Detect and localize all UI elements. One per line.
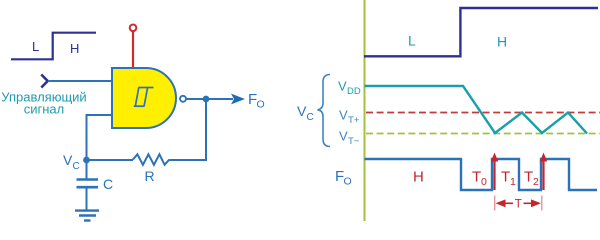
- wire input to gate pin 1: [48, 80, 112, 82]
- svg-text:C: C: [103, 176, 113, 192]
- curly brace for VC levels: [318, 75, 331, 147]
- timing axis (vertical): [364, 0, 366, 221]
- wire resistor to output node: [169, 99, 206, 160]
- wire gate pin 2 feedback left: [87, 115, 113, 160]
- resistor R: [133, 154, 170, 165]
- ground: [75, 209, 99, 211]
- period measurement tick 1: [494, 196, 496, 211]
- svg-text:T: T: [501, 169, 510, 186]
- svg-text:O: O: [257, 99, 265, 111]
- wire VC to resistor: [87, 159, 134, 161]
- svg-text:H: H: [70, 41, 79, 56]
- svg-text:сигнал: сигнал: [24, 102, 65, 117]
- output arrowhead: [231, 94, 245, 105]
- svg-text:DD: DD: [347, 86, 361, 97]
- svg-text:V: V: [338, 79, 347, 94]
- svg-text:T+: T+: [348, 115, 360, 126]
- svg-text:T: T: [524, 169, 533, 186]
- svg-text:T: T: [515, 198, 522, 210]
- svg-text:C: C: [73, 161, 80, 172]
- period measurement tick 2: [541, 196, 543, 211]
- svg-text:O: O: [344, 176, 352, 188]
- svg-text:R: R: [145, 168, 155, 184]
- FO waveform trace (blue): [365, 159, 598, 190]
- capacitor C: [86, 160, 88, 179]
- VC waveform trace (teal): [365, 86, 588, 134]
- gate output bubble: [180, 96, 186, 102]
- wire gate output to FO: [186, 98, 233, 100]
- output junction dot: [203, 96, 210, 103]
- wire capacitor to ground: [86, 187, 88, 210]
- svg-text:L: L: [408, 33, 416, 49]
- input arrow chevron: [41, 75, 47, 88]
- svg-text:T−: T−: [348, 136, 360, 147]
- control-signal step waveform (L to H): [11, 33, 96, 60]
- svg-text:V: V: [297, 103, 307, 119]
- red rising-edge arrow 1: [493, 158, 495, 190]
- svg-text:C: C: [307, 112, 314, 123]
- hysteresis symbol inside gate: [134, 88, 154, 107]
- control waveform trace (L to H step): [364, 8, 598, 56]
- period arrow right: [524, 202, 532, 204]
- svg-text:0: 0: [481, 176, 487, 188]
- svg-text:T: T: [472, 169, 481, 186]
- power supply wire (red): [132, 31, 134, 67]
- power supply terminal circle: [130, 25, 137, 32]
- red rising-edge arrow 2: [542, 158, 544, 190]
- threshold line VT+ (dashed red): [366, 112, 600, 114]
- svg-text:H: H: [497, 34, 507, 50]
- svg-text:H: H: [413, 169, 424, 186]
- period arrow left: [505, 202, 513, 204]
- svg-text:1: 1: [510, 176, 516, 188]
- svg-text:V: V: [339, 108, 348, 123]
- threshold line VT- (dashed olive): [366, 133, 600, 135]
- Schmitt-trigger NAND gate body: [112, 68, 176, 128]
- svg-text:2: 2: [533, 176, 539, 188]
- svg-text:V: V: [339, 129, 348, 144]
- svg-text:L: L: [32, 39, 39, 54]
- svg-text:V: V: [63, 152, 73, 168]
- node VC junction dot: [83, 157, 90, 164]
